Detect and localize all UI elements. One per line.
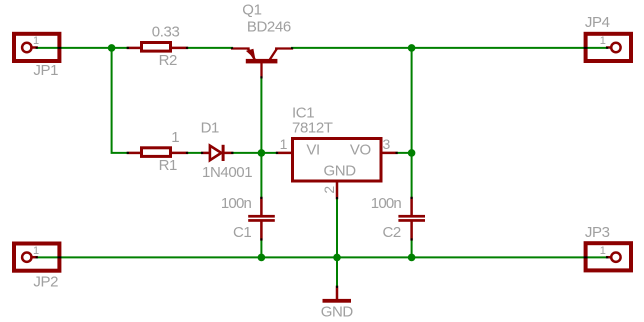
connector JP2 (14, 244, 59, 271)
svg-text:3: 3 (383, 136, 391, 152)
svg-text:JP4: JP4 (585, 14, 610, 31)
svg-text:0.33: 0.33 (152, 23, 180, 40)
junction Q1 base / D1 output (258, 149, 266, 157)
svg-text:JP1: JP1 (33, 62, 58, 79)
svg-text:100n: 100n (371, 195, 402, 212)
svg-text:1: 1 (600, 245, 606, 257)
connector JP1 (14, 34, 59, 61)
junction C1 bottom (258, 254, 266, 262)
svg-text:1: 1 (600, 35, 606, 47)
connector JP3 (586, 243, 631, 270)
svg-text:100n: 100n (221, 195, 252, 212)
svg-text:VI: VI (306, 141, 319, 158)
junction top right (408, 44, 416, 52)
svg-text:BD246: BD246 (247, 19, 291, 36)
capacitor C1 (248, 198, 275, 239)
wire top row: Q1 collector to JP4 (292, 47, 607, 49)
wire top row: JP1 to R2 (37, 47, 128, 49)
wire top row: R2 to Q1 emitter (187, 47, 232, 49)
junction C2 bottom (408, 254, 416, 262)
svg-text:1: 1 (171, 129, 179, 146)
wire bottom row: JP2 to JP3 (37, 256, 608, 258)
svg-text:JP2: JP2 (33, 273, 58, 290)
svg-text:D1: D1 (201, 119, 219, 136)
svg-text:GND: GND (321, 303, 354, 320)
wire Q1 base down through mid junction to C1 top (260, 77, 262, 198)
connector JP4 (586, 34, 631, 61)
svg-text:7812T: 7812T (292, 119, 333, 136)
svg-text:VO: VO (350, 141, 371, 158)
svg-text:1: 1 (33, 245, 39, 257)
svg-text:1: 1 (280, 136, 288, 152)
wire right vertical from top junction down to C2 top (411, 48, 413, 198)
junction GND (333, 254, 341, 262)
svg-text:GND: GND (324, 163, 357, 180)
capacitor C2 (398, 198, 425, 239)
wire IC1 GND pin down to bottom row (336, 198, 338, 257)
wire mid row: D1 cathode to IC1 VI (232, 152, 277, 154)
junction at JP1/R2 split (108, 44, 116, 52)
wire mid row: R1 to D1 anode (187, 152, 202, 154)
resistor R2 (128, 43, 187, 52)
wire mid row: IC1 VO to right vertical (397, 152, 412, 154)
wire bottom junction down to GND symbol (336, 257, 338, 287)
junction IC1 output (408, 149, 416, 157)
wire left vertical drop with corner to R1 (112, 48, 128, 153)
svg-text:1: 1 (33, 35, 39, 47)
wire C1 bottom to bottom row (260, 239, 262, 257)
op-amp IC1 box (277, 139, 396, 199)
svg-text:C1: C1 (233, 224, 251, 241)
transistor Q1 (232, 48, 292, 77)
svg-text:2: 2 (321, 186, 337, 194)
ground symbol (323, 287, 352, 303)
svg-text:Q1: Q1 (242, 2, 261, 19)
wire C2 bottom to bottom row (411, 239, 413, 257)
resistor R1 (128, 148, 187, 157)
svg-text:R1: R1 (159, 157, 177, 174)
svg-text:JP3: JP3 (585, 224, 610, 241)
svg-text:1N4001: 1N4001 (202, 164, 252, 181)
svg-text:C2: C2 (383, 224, 401, 241)
diode D1 (202, 145, 232, 161)
svg-text:R2: R2 (159, 52, 177, 69)
